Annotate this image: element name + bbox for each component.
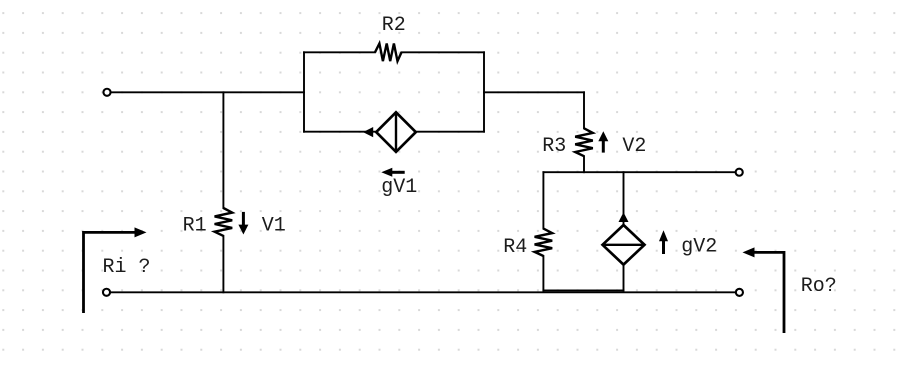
- wire: loop left vertical: [303, 52, 305, 131]
- wire: gV2 lower segment: [623, 264, 625, 290]
- resistor R2: [375, 44, 402, 62]
- arrow V1 (down): [238, 212, 248, 235]
- svg-text:R3: R3: [542, 135, 566, 158]
- gV1 reference arrow: [381, 168, 404, 177]
- current source gV1 (diamond): [376, 112, 416, 152]
- wire: loop top, left of R2: [304, 51, 375, 53]
- wire: R3 upper segment: [583, 92, 585, 128]
- resistor R3: [575, 128, 593, 156]
- measurement arrow Ro: [743, 247, 785, 333]
- gV2 reference arrow: [659, 230, 668, 254]
- wire: loop top, right of R2: [402, 51, 485, 53]
- svg-text:V2: V2: [622, 135, 646, 158]
- svg-text:R2: R2: [382, 14, 406, 37]
- gV1 direction arrowhead on wire: [363, 127, 373, 137]
- input terminal top-left: [103, 89, 110, 96]
- svg-text:gV1: gV1: [381, 176, 417, 199]
- wire: gV2 upper segment: [623, 172, 625, 225]
- wire: R4 bottom to gV2 bottom connector: [543, 289, 623, 291]
- wire: input terminal to loop left vertical: [111, 91, 304, 93]
- svg-text:gV2: gV2: [681, 235, 717, 258]
- wire: loop right vertical: [483, 52, 485, 131]
- wire: loop bottom, right of gV1: [416, 131, 484, 133]
- gV2 direction arrowhead on wire: [619, 212, 629, 222]
- svg-text:V1: V1: [262, 214, 286, 237]
- svg-text:R4: R4: [503, 236, 527, 259]
- wire: middle node horizontal: [543, 171, 735, 173]
- measurement arrow Ri: [84, 227, 147, 313]
- wire: bottom rail: [111, 291, 736, 293]
- resistor R1: [215, 208, 233, 236]
- svg-text:R1: R1: [183, 214, 207, 237]
- current source gV2 (diamond): [603, 225, 645, 265]
- arrow V2 (up): [598, 131, 608, 152]
- wire: R1 branch upper segment: [222, 92, 224, 208]
- wire: loop bottom, left of gV1: [304, 131, 376, 133]
- svg-text:Ro?: Ro?: [801, 275, 837, 298]
- wire: R4 lower segment: [542, 256, 544, 290]
- wire: R1 branch lower segment: [222, 236, 224, 292]
- wire: R4 upper segment: [542, 172, 544, 228]
- svg-text:Ri ?: Ri ?: [103, 256, 151, 279]
- output terminal bottom-right: [736, 289, 743, 296]
- input terminal bottom-left: [103, 289, 110, 296]
- wire: loop right vertical to R3 top corner: [484, 91, 584, 93]
- resistor R4: [535, 229, 553, 256]
- wire: R3 lower segment: [583, 156, 585, 172]
- output terminal top-right: [736, 169, 743, 176]
